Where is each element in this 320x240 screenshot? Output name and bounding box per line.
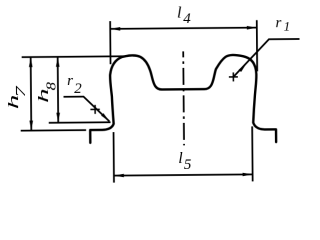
h7 arrow up bbox=[29, 57, 33, 67]
svg-text:r: r bbox=[67, 73, 73, 89]
h8 lower extension line bbox=[49, 121, 111, 124]
l5 extension line right bbox=[251, 126, 253, 181]
l4 dimension line bbox=[110, 28, 257, 29]
l4 extension line right bbox=[256, 20, 258, 71]
h8 arrow down bbox=[56, 113, 60, 123]
svg-text:8: 8 bbox=[43, 82, 58, 91]
l4 extension line left bbox=[109, 21, 111, 64]
h8 dimension line bbox=[57, 57, 60, 122]
h7 dimension line bbox=[30, 58, 33, 130]
svg-text:l: l bbox=[178, 150, 183, 167]
l5 dimension line bbox=[114, 174, 253, 175]
profile outline (hat-section: lips, flanges, corner radii, walls, two dome humps, central dip) bbox=[90, 54, 277, 144]
svg-text:1: 1 bbox=[284, 19, 291, 34]
svg-text:5: 5 bbox=[184, 157, 192, 173]
r2 leader line bbox=[64, 96, 110, 121]
h8 arrow up bbox=[56, 57, 60, 67]
svg-text:7: 7 bbox=[13, 85, 28, 97]
r2 leader arrow (tip at corner radius, pointing down-right) bbox=[101, 113, 109, 121]
top extension line for h7/h8 (touches hump top) bbox=[22, 55, 124, 58]
h7 arrow down bbox=[29, 121, 33, 131]
l5 arrow right bbox=[243, 173, 253, 177]
r1 leader arrow (tip on dome arc, pointing outward) bbox=[239, 63, 247, 72]
h7 lower extension line bbox=[21, 129, 86, 132]
l5 arrow left bbox=[114, 174, 124, 178]
l5 extension line left bbox=[113, 132, 115, 182]
l4 arrow right bbox=[247, 26, 257, 30]
r1 centre mark bbox=[229, 72, 238, 81]
svg-text:4: 4 bbox=[183, 11, 191, 27]
r1 leader line bbox=[233, 39, 300, 77]
l4 arrow left bbox=[110, 27, 120, 31]
centerline (vertical dash-dot axis) bbox=[182, 51, 185, 145]
svg-text:2: 2 bbox=[74, 81, 82, 97]
svg-text:r: r bbox=[275, 15, 281, 31]
r2 centre mark bbox=[90, 105, 99, 114]
svg-text:l: l bbox=[177, 4, 182, 21]
